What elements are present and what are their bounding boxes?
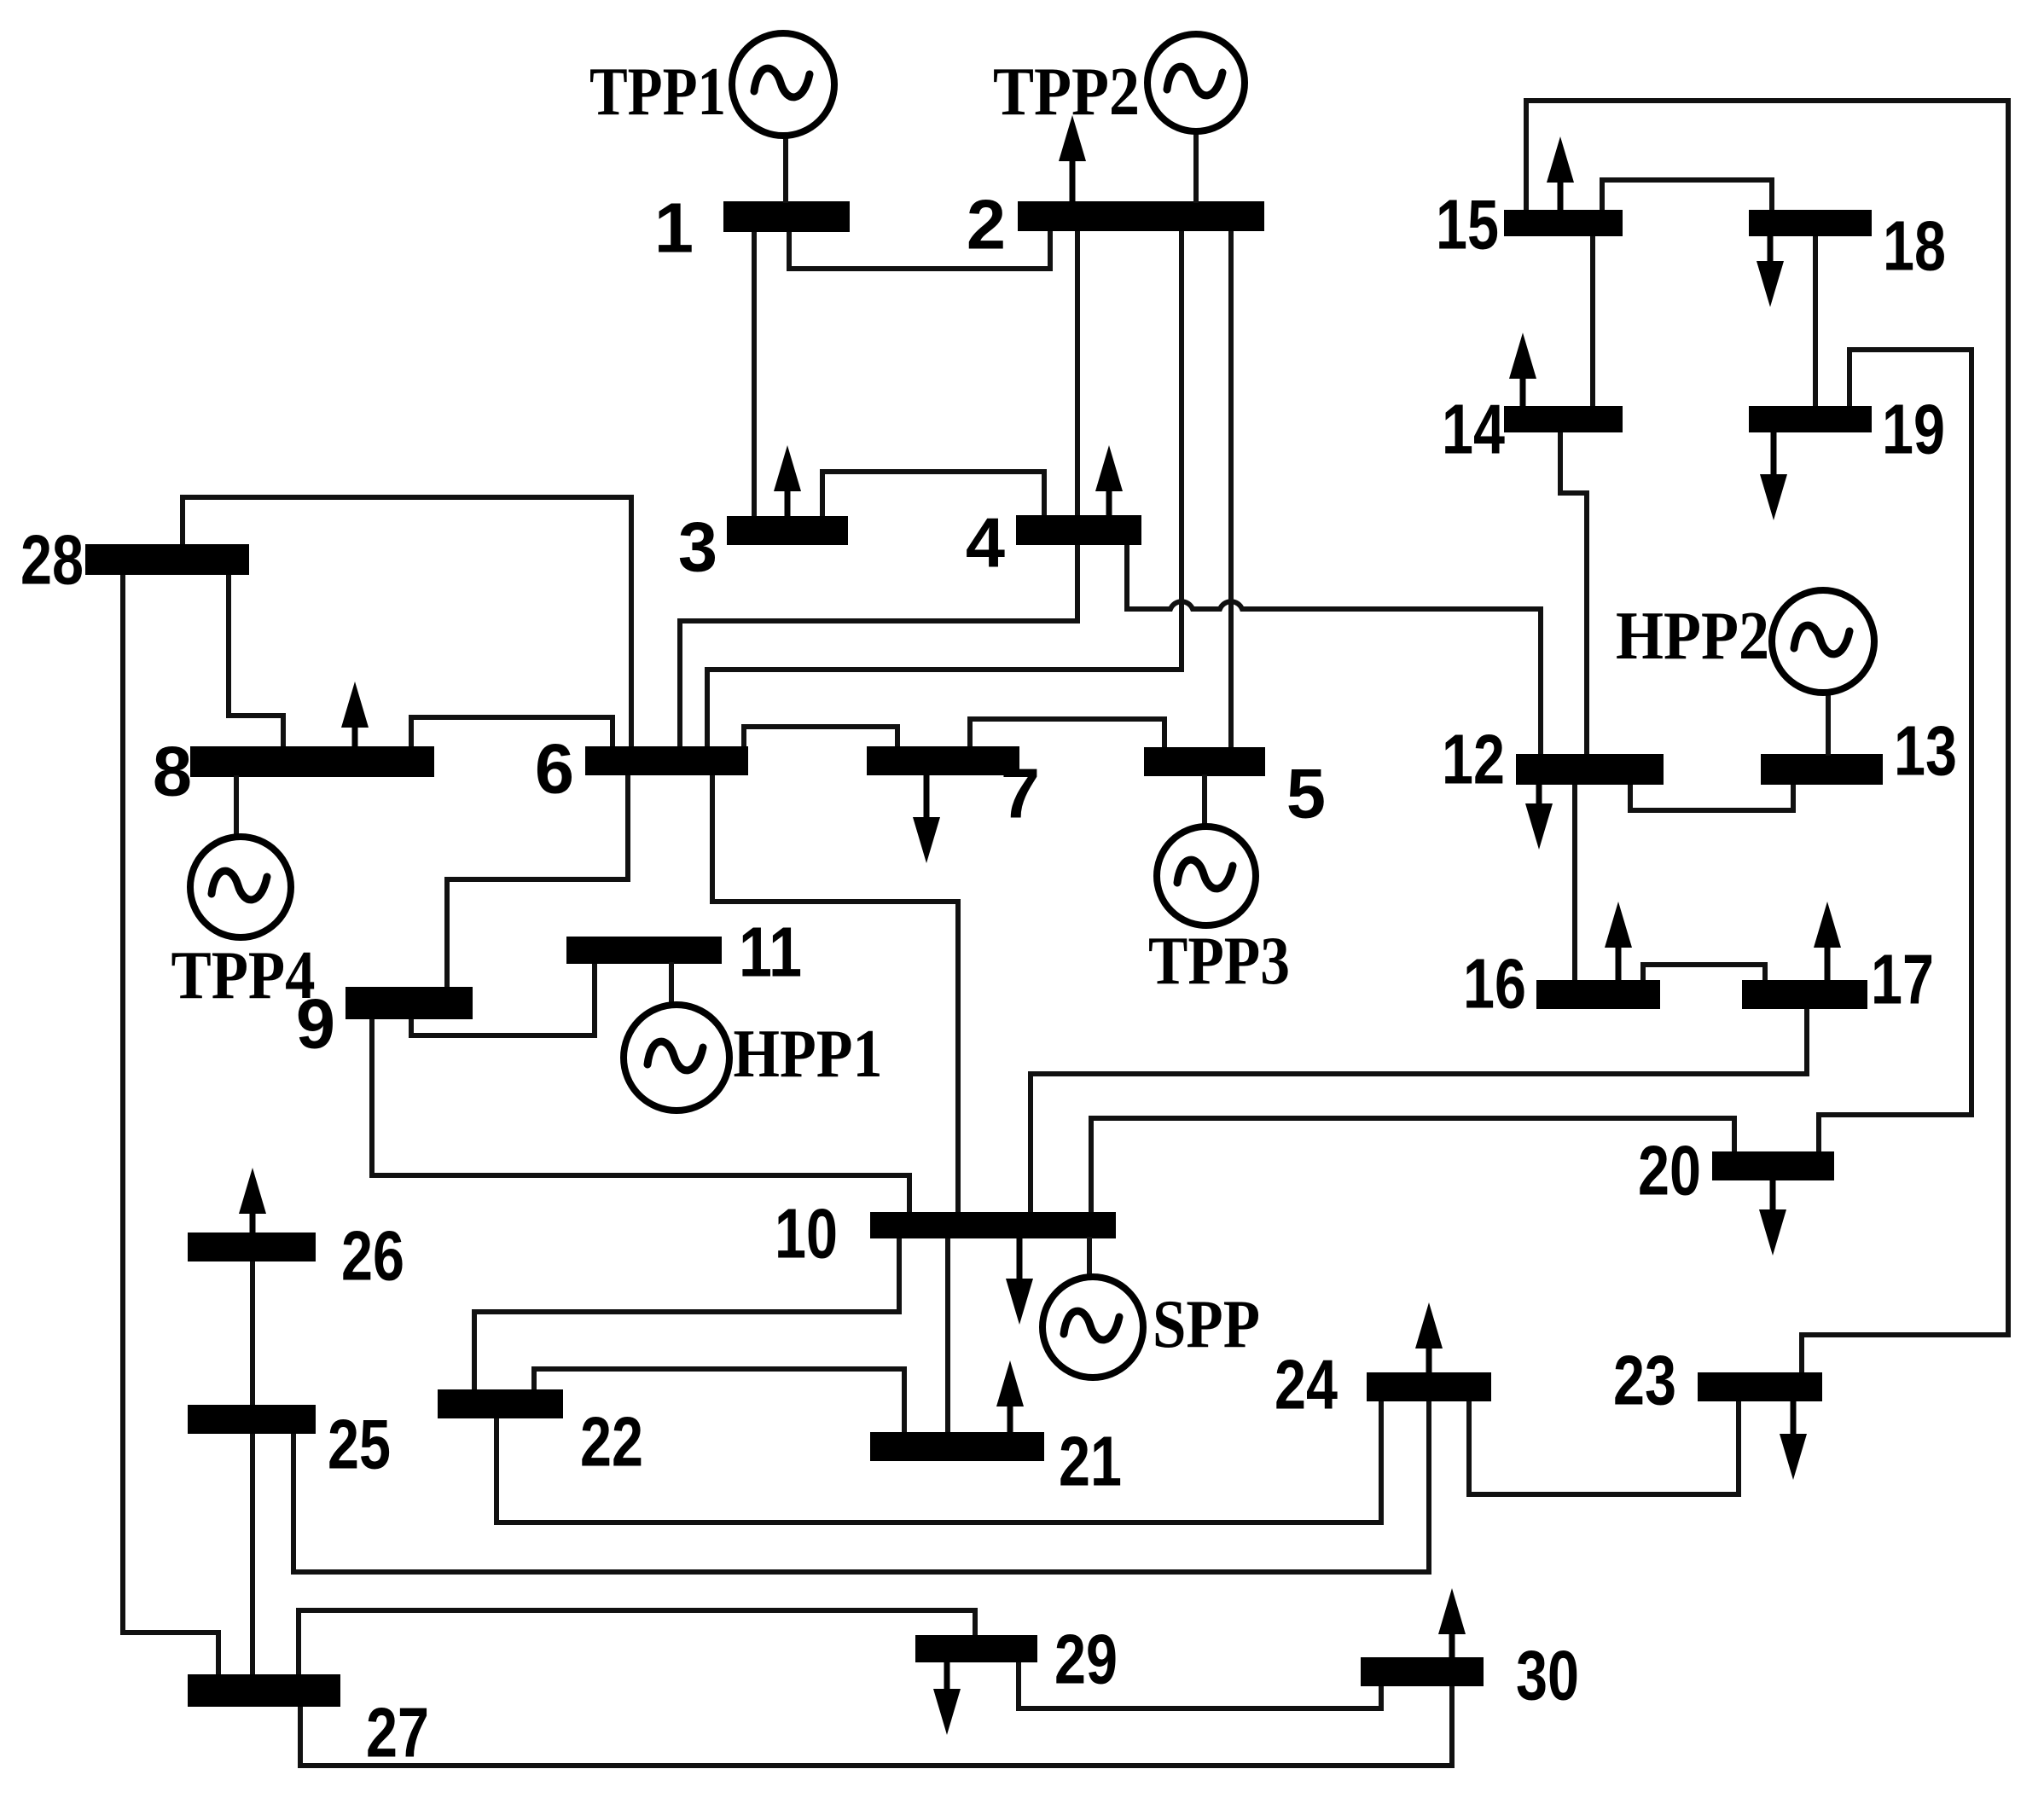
svg-text:3: 3 <box>678 507 717 587</box>
svg-text:17: 17 <box>1871 940 1934 1019</box>
svg-text:20: 20 <box>1638 1131 1701 1210</box>
svg-text:29: 29 <box>1054 1620 1118 1699</box>
svg-text:TPP3: TPP3 <box>1148 924 1290 999</box>
svg-text:HPP2: HPP2 <box>1616 599 1769 674</box>
svg-text:2: 2 <box>967 185 1006 264</box>
svg-text:21: 21 <box>1059 1422 1122 1501</box>
svg-text:19: 19 <box>1882 390 1945 469</box>
svg-text:11: 11 <box>739 913 802 992</box>
svg-text:8: 8 <box>153 732 192 811</box>
svg-text:26: 26 <box>341 1216 404 1296</box>
svg-text:4: 4 <box>966 503 1005 583</box>
svg-text:TPP1: TPP1 <box>589 55 726 130</box>
svg-text:28: 28 <box>20 520 84 600</box>
svg-text:13: 13 <box>1894 711 1957 791</box>
svg-text:9: 9 <box>296 984 335 1064</box>
svg-text:30: 30 <box>1516 1636 1579 1715</box>
svg-text:SPP: SPP <box>1153 1287 1260 1362</box>
svg-text:TPP2: TPP2 <box>993 55 1140 130</box>
svg-text:15: 15 <box>1436 185 1499 264</box>
svg-text:7: 7 <box>1001 754 1040 833</box>
svg-text:12: 12 <box>1442 720 1505 799</box>
svg-text:14: 14 <box>1442 390 1505 469</box>
svg-text:23: 23 <box>1613 1341 1676 1420</box>
svg-text:TPP4: TPP4 <box>171 938 316 1013</box>
svg-text:16: 16 <box>1463 944 1526 1024</box>
svg-text:24: 24 <box>1275 1345 1338 1424</box>
svg-text:10: 10 <box>775 1194 838 1273</box>
svg-text:25: 25 <box>328 1405 391 1484</box>
svg-text:HPP1: HPP1 <box>734 1017 883 1092</box>
svg-text:1: 1 <box>654 188 694 268</box>
svg-text:22: 22 <box>580 1402 643 1482</box>
svg-text:6: 6 <box>535 729 574 809</box>
svg-text:5: 5 <box>1286 754 1326 833</box>
svg-text:18: 18 <box>1883 206 1946 286</box>
svg-text:27: 27 <box>366 1693 429 1772</box>
